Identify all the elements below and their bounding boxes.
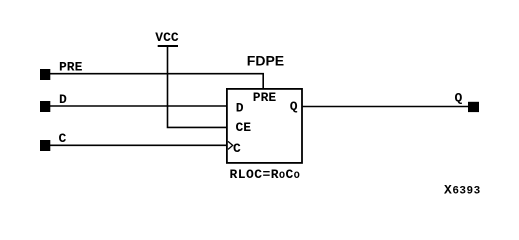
svg-text:C: C xyxy=(233,141,241,156)
svg-text:C: C xyxy=(59,131,67,146)
svg-text:VCC: VCC xyxy=(155,30,179,45)
svg-text:FDPE: FDPE xyxy=(247,53,284,69)
svg-text:CE: CE xyxy=(236,120,252,135)
svg-text:PRE: PRE xyxy=(253,90,277,105)
svg-text:Q: Q xyxy=(455,91,463,106)
svg-text:RLOC=ROCO: RLOC=ROCO xyxy=(230,167,301,182)
svg-text:D: D xyxy=(236,101,244,116)
svg-text:PRE: PRE xyxy=(59,60,83,75)
svg-text:D: D xyxy=(59,92,67,107)
svg-text:Q: Q xyxy=(290,99,298,114)
svg-text:X6393: X6393 xyxy=(444,183,481,198)
